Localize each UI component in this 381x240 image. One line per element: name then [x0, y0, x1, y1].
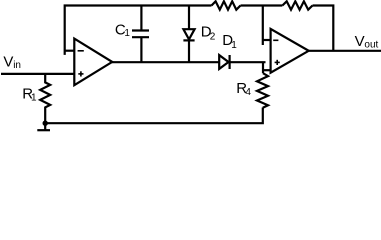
wire op-amp U2 noninverting input branch	[263, 69, 271, 71]
op-amp U2 plus sign	[275, 60, 280, 65]
op-amp U2	[271, 29, 309, 73]
resistor R4	[257, 73, 268, 108]
svg-text:4: 4	[245, 87, 251, 98]
op-amp U1	[74, 39, 112, 86]
svg-text:1: 1	[231, 40, 237, 51]
node junction dot	[43, 121, 48, 126]
wire op-amp U2 feedback vertical from top rail	[262, 6, 264, 46]
svg-text:out: out	[364, 40, 378, 51]
wire op-amp U1 inverting input branch	[65, 50, 75, 52]
resistor (top left, unlabeled)	[212, 1, 241, 9]
diode D2 cathode bar	[183, 39, 194, 41]
svg-text:1: 1	[124, 28, 130, 39]
ground bar	[37, 129, 50, 131]
diode D1 cathode bar	[229, 55, 231, 69]
capacitor C1 plates	[132, 29, 149, 31]
op-amp U1 minus sign	[78, 50, 84, 52]
svg-text:V: V	[355, 33, 365, 50]
wire top rail middle	[241, 4, 283, 6]
diode D2 stem top	[188, 6, 190, 30]
op-amp U2 minus sign	[273, 39, 278, 41]
wire op-amp U2 inverting input branch	[263, 39, 271, 41]
diode D1 triangle	[219, 55, 228, 69]
capacitor C1 stem top	[140, 6, 142, 31]
diode D2 triangle	[183, 29, 194, 39]
resistor R1	[40, 74, 50, 129]
wire output to Vout	[308, 50, 381, 52]
wire top rail left + left feedback vertical	[65, 6, 212, 55]
wire top rail right + right vertical to output	[313, 6, 334, 51]
diode D2 stem bottom	[188, 40, 190, 62]
svg-text:2: 2	[210, 31, 216, 42]
wire Vin input	[1, 73, 74, 75]
svg-text:in: in	[13, 60, 21, 71]
svg-text:1: 1	[31, 92, 37, 103]
capacitor C1 stem bottom	[140, 37, 142, 62]
wire bottom rail	[45, 108, 263, 124]
wire op-amp U1 output to middle rail	[111, 61, 219, 63]
op-amp U1 plus sign	[78, 71, 83, 76]
svg-text:V: V	[3, 54, 13, 71]
resistor (top right, unlabeled)	[282, 1, 312, 9]
wire D1 cathode to node, elbow down to R4	[230, 61, 266, 63]
